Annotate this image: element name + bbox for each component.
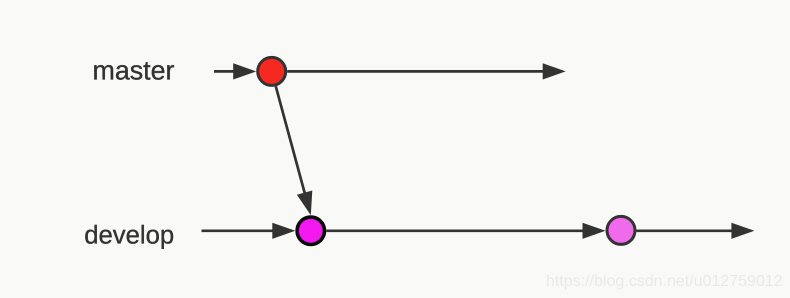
svg-text:master: master bbox=[93, 55, 175, 85]
svg-text:https://blog.csdn.net/u0127590: https://blog.csdn.net/u012759012 bbox=[546, 273, 783, 290]
wire master branch forward arrow bbox=[287, 63, 566, 79]
wire develop branch forward arrow bbox=[637, 223, 755, 239]
wire arrow into master commit node bbox=[214, 63, 256, 79]
commit node D1 magenta on develop bbox=[297, 217, 324, 244]
commit node D2 violet on develop bbox=[607, 216, 635, 244]
commit node M1 red on master bbox=[258, 57, 286, 85]
wire branch-off arrow from master node to develop node bbox=[276, 86, 313, 215]
wire arrow into develop commit node bbox=[202, 223, 296, 239]
wire arrow from develop node D1 to D2 bbox=[326, 223, 605, 239]
svg-text:develop: develop bbox=[84, 221, 174, 249]
